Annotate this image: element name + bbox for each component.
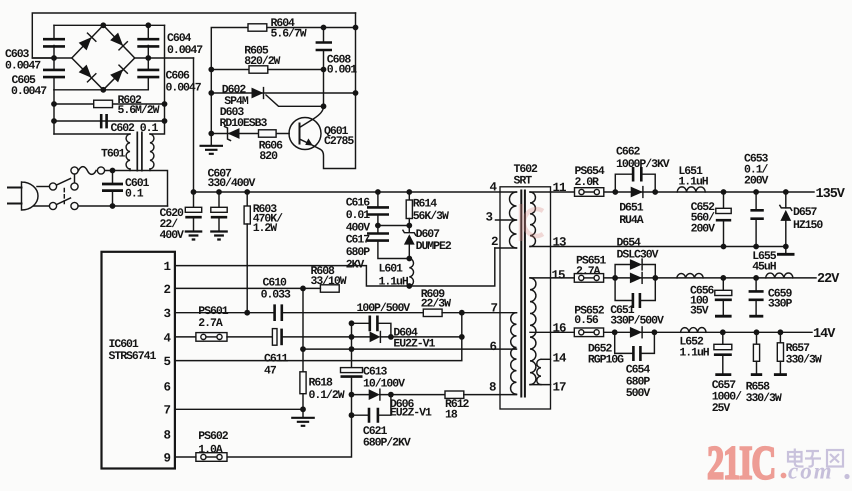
interlock squiggle bbox=[79, 167, 97, 175]
capacitor 100P/500V branch bbox=[349, 316, 391, 337]
node C604/C606 junction bbox=[145, 55, 151, 61]
transistor Q601 circle bbox=[289, 118, 321, 150]
ground under C620 bbox=[185, 232, 203, 240]
svg-text:680P: 680P bbox=[346, 246, 371, 259]
svg-text:200V: 200V bbox=[744, 175, 769, 188]
capacitor C611 (electrolytic) bbox=[272, 329, 281, 346]
svg-text:1.1uH: 1.1uH bbox=[678, 176, 708, 189]
node bridge top bbox=[100, 22, 106, 28]
node pin6 net C613 bbox=[349, 346, 355, 352]
T601 left winding bbox=[126, 134, 130, 169]
svg-text:RU4A: RU4A bbox=[619, 214, 644, 227]
ground under D603 bbox=[200, 134, 224, 154]
node C604 top bbox=[145, 22, 151, 28]
bridge rectifier edges bbox=[72, 25, 135, 90]
watermark CJK 网 bbox=[827, 450, 843, 467]
node pin6 net left bbox=[300, 346, 306, 352]
capacitor C654 branch bbox=[615, 332, 655, 361]
node R605 right bbox=[321, 67, 327, 73]
wire R609 to transformer pin7 bbox=[442, 312, 516, 314]
svg-text:8: 8 bbox=[164, 429, 171, 443]
wire D603 line bbox=[211, 133, 289, 135]
node D606 left bbox=[349, 392, 355, 398]
node pin7/D604 column bbox=[459, 310, 465, 316]
wire T602 pin2 to L601 net bbox=[409, 248, 495, 286]
svg-text:135V: 135V bbox=[816, 187, 846, 202]
svg-text:5.6/7W: 5.6/7W bbox=[271, 28, 307, 41]
node C659 top bbox=[753, 275, 759, 281]
node C602 right bbox=[162, 118, 168, 124]
transistor Q601 collector stroke bbox=[300, 107, 324, 128]
AC plug prong top bbox=[8, 187, 22, 189]
resistor R612 bbox=[445, 391, 464, 398]
node D607/L601 bbox=[406, 256, 412, 262]
wire bridge right mid bbox=[135, 57, 194, 59]
capacitor C604 bbox=[137, 39, 159, 46]
T601 right winding bbox=[150, 134, 154, 169]
node D652 right bbox=[652, 329, 658, 335]
svg-text:2.0R: 2.0R bbox=[575, 176, 600, 189]
wire C608 stems bbox=[323, 28, 325, 70]
ground under R618 bbox=[291, 409, 315, 426]
svg-text:8: 8 bbox=[489, 381, 496, 395]
svg-text:330/400V: 330/400V bbox=[208, 177, 256, 190]
svg-text:1.0A: 1.0A bbox=[198, 443, 223, 456]
node R602 left bbox=[51, 101, 57, 107]
svg-text:6: 6 bbox=[490, 340, 497, 354]
wire B+ rail bbox=[194, 191, 501, 193]
T602 drive winding pins 7-6-8 bbox=[511, 313, 517, 395]
wire interlock to switch bbox=[74, 174, 76, 183]
svg-text:SRT: SRT bbox=[514, 175, 533, 188]
watermark dot before com bbox=[781, 473, 787, 479]
capacitor C616 bbox=[367, 192, 389, 226]
wire C608/R605 column to node bbox=[323, 70, 325, 108]
resistor R658 (vertical) bbox=[751, 332, 762, 374]
svg-text:330P: 330P bbox=[768, 298, 793, 311]
svg-text:C602 0.1: C602 0.1 bbox=[111, 122, 159, 135]
wire pin1 bbox=[175, 266, 409, 286]
interlock connector left circle bbox=[71, 167, 78, 174]
capacitor C656 (electrolytic) bbox=[715, 278, 732, 316]
zener D603 bar bbox=[225, 127, 231, 141]
capacitor C621 branch bbox=[349, 395, 391, 423]
node D654 left bbox=[612, 275, 618, 281]
svg-text:500V: 500V bbox=[626, 387, 651, 400]
wire C616/R614 junction bbox=[378, 225, 409, 227]
diode D652 bbox=[630, 327, 642, 338]
node D652 left bbox=[612, 329, 618, 335]
wire R608 column bbox=[302, 288, 304, 371]
capacitor C601 bbox=[102, 184, 123, 191]
diode D604 bar bbox=[379, 332, 381, 343]
capacitor C603 bbox=[43, 39, 65, 46]
resistor R657 (vertical) bbox=[774, 332, 787, 374]
node R605 left bbox=[208, 67, 214, 73]
node rail C616 bbox=[375, 189, 381, 195]
svg-text:7: 7 bbox=[491, 302, 498, 316]
svg-text:DSLC30V: DSLC30V bbox=[617, 249, 659, 262]
svg-text:22/3W: 22/3W bbox=[421, 298, 451, 311]
switch S1a fixed circle bbox=[49, 183, 56, 190]
svg-text:16: 16 bbox=[553, 322, 567, 336]
node collector junction bbox=[321, 103, 327, 109]
node D651 right bbox=[652, 189, 658, 195]
wire bridge bottom line bbox=[54, 89, 148, 91]
node C608 top bbox=[321, 25, 327, 31]
wire C602 line bbox=[54, 120, 165, 122]
capacitor C662 branch bbox=[615, 167, 655, 192]
wire top rail bbox=[32, 13, 355, 58]
resistor R608 bbox=[320, 285, 339, 292]
node rail R603 bbox=[244, 189, 250, 195]
svg-text:330/3W: 330/3W bbox=[746, 392, 782, 405]
svg-text:1000P/3KV: 1000P/3KV bbox=[616, 158, 670, 171]
svg-text:5: 5 bbox=[164, 355, 171, 369]
node R603/pin3 bbox=[244, 310, 250, 316]
node C657 top bbox=[720, 329, 726, 335]
svg-text:2.7A: 2.7A bbox=[198, 317, 223, 330]
node C653 bottom bbox=[753, 244, 759, 250]
node pin7/R618 bbox=[300, 406, 306, 412]
T602 secondary winding pins 11-13 bbox=[530, 192, 551, 247]
inductor L601 bbox=[409, 259, 413, 287]
svg-text:6: 6 bbox=[164, 380, 171, 394]
fuse PS652 bbox=[574, 328, 603, 337]
interlock connector right circle bbox=[97, 167, 104, 174]
node bridge bottom bbox=[100, 87, 106, 93]
wire R604 line bbox=[267, 27, 356, 29]
wire right cap column bbox=[147, 25, 149, 90]
svg-text:22V: 22V bbox=[817, 272, 840, 287]
node junction right bbox=[406, 223, 412, 229]
wire D604 to right node bbox=[380, 336, 461, 338]
capacitor C620 (electrolytic) bbox=[185, 192, 201, 231]
diode D606 bar bbox=[379, 389, 381, 400]
fuse PS601 bbox=[196, 333, 227, 342]
resistor R614 (vertical) bbox=[406, 192, 412, 226]
watermark 21IC bbox=[707, 437, 775, 489]
capacitor C617 bbox=[367, 226, 409, 259]
diode D602 bar bbox=[263, 88, 265, 99]
wire pin9 riser bbox=[227, 415, 352, 457]
svg-text:EU2Z-V1: EU2Z-V1 bbox=[393, 337, 435, 350]
svg-text:330/3W: 330/3W bbox=[786, 354, 822, 367]
transistor Q601 emitter arrow bbox=[305, 138, 313, 145]
svg-text:C2785: C2785 bbox=[324, 135, 354, 148]
svg-text:14: 14 bbox=[553, 351, 568, 365]
node C603/C605 junction bbox=[51, 55, 57, 61]
wire pin4 mid bbox=[227, 336, 272, 338]
AC plug body bbox=[22, 182, 39, 210]
wire bottom AC line bbox=[78, 205, 167, 207]
svg-text:15: 15 bbox=[552, 269, 566, 283]
capacitor C607 (electrolytic) bbox=[211, 192, 227, 231]
svg-text:3: 3 bbox=[486, 211, 493, 225]
wire C601 stems bbox=[112, 171, 114, 207]
bridge diode top-left bbox=[78, 33, 95, 50]
capacitor C657 (electrolytic) bbox=[714, 332, 732, 374]
wire 22V rail bbox=[551, 277, 817, 279]
svg-text:0.0047: 0.0047 bbox=[5, 60, 41, 73]
svg-text:0.01: 0.01 bbox=[346, 209, 371, 222]
zener D603 triangle bbox=[228, 128, 240, 139]
wire R612 to transformer pin8 bbox=[464, 394, 517, 396]
diode D606 bbox=[369, 389, 380, 400]
svg-text:0.0047: 0.0047 bbox=[167, 44, 203, 57]
svg-text:DUMPE2: DUMPE2 bbox=[416, 240, 452, 253]
svg-text:400V: 400V bbox=[160, 229, 185, 242]
node rail R614 bbox=[406, 189, 412, 195]
wire T601 right coil to line bbox=[149, 169, 151, 171]
svg-text:820/2W: 820/2W bbox=[244, 55, 280, 68]
svg-text:200V: 200V bbox=[691, 223, 716, 236]
node L601 bottom bbox=[406, 283, 412, 289]
watermark CJK 子 bbox=[805, 451, 821, 467]
T602 core lines bbox=[521, 190, 525, 398]
ground bar D657 bbox=[777, 247, 795, 255]
fuse PS654 bbox=[575, 188, 604, 197]
bridge diode bottom-left bbox=[78, 64, 95, 81]
svg-text:D654: D654 bbox=[617, 236, 642, 249]
svg-text:330P/500V: 330P/500V bbox=[610, 315, 664, 328]
resistor R609 bbox=[423, 309, 442, 316]
switch S1b moving circle bbox=[71, 202, 78, 209]
wire left column lower bbox=[53, 90, 55, 134]
svg-text:7: 7 bbox=[164, 404, 171, 418]
diode D653 on rail bbox=[630, 273, 642, 284]
fuse PS651 bbox=[574, 274, 603, 283]
ground under C607 bbox=[210, 232, 228, 240]
node rail C607 bbox=[216, 189, 222, 195]
wire R608 leads bbox=[303, 287, 320, 289]
wire pin4 left bbox=[175, 336, 196, 338]
svg-text:1: 1 bbox=[164, 260, 171, 274]
svg-text:2.7A: 2.7A bbox=[576, 265, 601, 278]
wire R605 line bbox=[211, 69, 323, 71]
svg-text:HZ150: HZ150 bbox=[793, 219, 823, 232]
wire pin5 bbox=[175, 337, 462, 361]
wire pin4 right bbox=[283, 336, 370, 338]
svg-text:2: 2 bbox=[164, 283, 171, 297]
svg-text:0.001: 0.001 bbox=[327, 64, 357, 77]
diode D653 bar bbox=[641, 273, 643, 284]
capacitor C610 bbox=[275, 304, 282, 321]
wire AC right to rail corner bbox=[193, 58, 195, 192]
svg-text:56K/3W: 56K/3W bbox=[413, 210, 449, 223]
node C601 bottom bbox=[110, 203, 116, 209]
resistor R606 bbox=[259, 130, 277, 137]
svg-text:T601: T601 bbox=[101, 148, 126, 161]
capacitor C652 (electrolytic) bbox=[716, 192, 731, 247]
node R657 top bbox=[778, 329, 784, 335]
svg-text:IC601: IC601 bbox=[109, 338, 139, 351]
T601 core bbox=[137, 132, 142, 172]
node D603 left bbox=[208, 131, 214, 137]
node R658 top bbox=[754, 329, 760, 335]
capacitor C653 bbox=[750, 192, 763, 247]
svg-text:D651: D651 bbox=[619, 202, 644, 215]
resistor R603 (vertical) bbox=[244, 192, 250, 313]
node rail C620 bbox=[191, 189, 197, 195]
svg-text:com: com bbox=[788, 459, 834, 484]
node D657 bottom bbox=[783, 244, 789, 250]
node R608 left bbox=[300, 286, 306, 292]
inductor L655 bbox=[766, 273, 793, 278]
svg-text:2KV: 2KV bbox=[346, 259, 365, 272]
node junction left bbox=[375, 223, 381, 229]
svg-text:5.6M/2W: 5.6M/2W bbox=[118, 104, 160, 117]
svg-text:680P/2KV: 680P/2KV bbox=[363, 437, 411, 450]
watermark CJK 电 bbox=[788, 449, 804, 467]
diode D604 bbox=[370, 332, 381, 343]
svg-text:10/100V: 10/100V bbox=[363, 378, 405, 391]
transistor Q601 base bar bbox=[299, 124, 301, 144]
wire pin7 bbox=[175, 408, 303, 410]
wire pin3 line right bbox=[283, 312, 423, 314]
bridge diode bottom-right bbox=[110, 65, 127, 82]
node D654 right bbox=[652, 275, 658, 281]
svg-text:0.1: 0.1 bbox=[125, 188, 144, 201]
bridge diode top-right bbox=[110, 32, 127, 49]
wire R602 line bbox=[54, 103, 165, 105]
svg-text:STRS6741: STRS6741 bbox=[109, 350, 157, 363]
node top rail / emitter column bbox=[353, 25, 359, 31]
svg-text:33/10W: 33/10W bbox=[311, 275, 347, 288]
wire plug to S1b bbox=[34, 205, 50, 207]
wire left cap column bbox=[53, 25, 55, 90]
transistor Q601 emitter stroke bbox=[300, 139, 311, 144]
wire pin9 bbox=[175, 456, 196, 458]
node D604 left bbox=[349, 334, 355, 340]
svg-text:R618: R618 bbox=[309, 377, 334, 390]
svg-text:100P/500V: 100P/500V bbox=[357, 302, 411, 315]
wire 135V rail bbox=[551, 191, 815, 193]
svg-text:11: 11 bbox=[553, 181, 567, 195]
switch S1b lever bbox=[57, 198, 71, 205]
svg-text:0.033: 0.033 bbox=[261, 289, 291, 302]
wire pin13 ground rail bbox=[551, 246, 786, 248]
wire 14V rail bbox=[551, 331, 813, 333]
svg-text:0.0047: 0.0047 bbox=[166, 82, 202, 95]
node C602 left bbox=[51, 118, 57, 124]
svg-text:EU2Z-V1: EU2Z-V1 bbox=[390, 407, 432, 420]
node C652 bottom bbox=[721, 244, 727, 250]
diode D651 bar bbox=[642, 187, 644, 198]
svg-text:820: 820 bbox=[259, 150, 278, 163]
wire right column x164.5 bbox=[164, 25, 166, 121]
svg-text:RGP10G: RGP10G bbox=[588, 353, 624, 366]
wire pin6-net (R618/C613 to transformer pin6) bbox=[303, 348, 517, 350]
node D651 left bbox=[612, 189, 618, 195]
fuse PS602 bbox=[196, 453, 227, 462]
zener D607 bbox=[403, 226, 416, 259]
inductor L652 bbox=[681, 328, 707, 333]
switch S1b fixed circle bbox=[49, 202, 56, 209]
wire pin7 node to D604 node bbox=[461, 313, 463, 337]
T602 winding pins 14-17 bbox=[537, 359, 551, 384]
capacitor C605 bbox=[43, 70, 65, 77]
node D602 right bbox=[353, 90, 359, 96]
diode D651 bbox=[631, 187, 643, 198]
diode pair branch top D654 bbox=[615, 259, 655, 278]
resistor R618 (vertical) bbox=[300, 372, 306, 410]
wire bridge left mid bbox=[33, 57, 72, 59]
svg-text:47: 47 bbox=[264, 365, 277, 378]
svg-text:18: 18 bbox=[445, 409, 458, 422]
svg-text:25V: 25V bbox=[712, 402, 731, 415]
svg-text:D657: D657 bbox=[793, 206, 818, 219]
faint center watermark bbox=[521, 204, 543, 241]
transformer T601 right lead bbox=[150, 121, 165, 134]
svg-text:17: 17 bbox=[553, 381, 567, 395]
svg-text:L601: L601 bbox=[379, 263, 404, 276]
svg-text:C616: C616 bbox=[346, 197, 371, 210]
wire T601 left coil to line bbox=[129, 169, 131, 171]
svg-text:1.2W: 1.2W bbox=[253, 222, 278, 235]
resistor R605 bbox=[249, 66, 268, 73]
svg-text:C662: C662 bbox=[616, 146, 641, 159]
node C601 top bbox=[110, 168, 116, 174]
svg-text:0.56: 0.56 bbox=[574, 314, 599, 327]
svg-text:RD10ESB3: RD10ESB3 bbox=[220, 117, 268, 130]
switch S1a moving circle bbox=[71, 183, 78, 190]
watermark trailing dot bbox=[844, 474, 849, 479]
node R602 right bbox=[162, 101, 168, 107]
capacitor C659 bbox=[749, 278, 764, 316]
T602 secondary winding pins 15-16-17 bbox=[530, 278, 551, 385]
wire snubber left vertical bbox=[211, 28, 248, 134]
capacitor C606 bbox=[137, 70, 159, 77]
svg-text:13: 13 bbox=[553, 236, 567, 250]
node C652 top bbox=[721, 189, 727, 195]
capacitor C608 bbox=[316, 43, 332, 51]
wire D606 line bbox=[352, 394, 446, 396]
svg-text:3: 3 bbox=[164, 307, 171, 321]
wire pin3 line left bbox=[175, 312, 274, 314]
wire plug to S1a bbox=[37, 186, 49, 188]
svg-text:PS602: PS602 bbox=[198, 430, 228, 443]
svg-text:2: 2 bbox=[491, 235, 498, 249]
wire emitter to rail bbox=[311, 13, 356, 169]
inductor L653 bbox=[677, 273, 704, 277]
svg-text:45uH: 45uH bbox=[752, 261, 777, 274]
resistor R602 bbox=[94, 100, 113, 107]
capacitor C602 bbox=[101, 114, 106, 128]
node 100P net right bbox=[388, 334, 394, 340]
switch S1a lever bbox=[57, 179, 71, 186]
wire D604 column mid bbox=[351, 323, 353, 367]
svg-text:1.1uH: 1.1uH bbox=[679, 347, 709, 360]
wire pin2 bbox=[175, 287, 303, 289]
capacitor C613 (electrolytic) bbox=[341, 368, 363, 395]
diode D602 bbox=[252, 88, 264, 99]
node C653 top bbox=[753, 189, 759, 195]
svg-text:9: 9 bbox=[164, 451, 171, 465]
inductor L651 bbox=[677, 187, 705, 192]
IC601 body bbox=[102, 252, 175, 469]
T602 box outline bbox=[500, 187, 551, 409]
wire T601 bottom line bbox=[105, 171, 168, 207]
node D657 top bbox=[783, 189, 789, 195]
svg-text:0.0047: 0.0047 bbox=[11, 85, 47, 98]
node C656 top bbox=[720, 275, 726, 281]
wire D602 line bbox=[211, 92, 355, 94]
svg-text:21IC: 21IC bbox=[707, 437, 775, 489]
svg-text:35V: 35V bbox=[690, 305, 709, 318]
resistor R604 bbox=[248, 24, 267, 31]
T602 primary winding pins 4-3-2 bbox=[495, 192, 517, 248]
